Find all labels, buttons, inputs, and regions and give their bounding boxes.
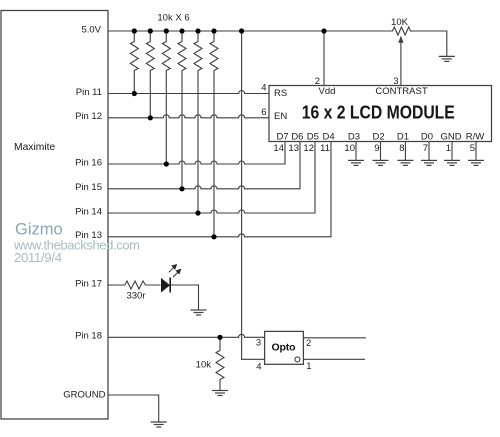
svg-text:Vdd: Vdd bbox=[319, 86, 336, 97]
svg-text:12: 12 bbox=[303, 143, 314, 154]
svg-text:Pin 11: Pin 11 bbox=[76, 87, 102, 98]
svg-text:5: 5 bbox=[470, 143, 475, 154]
svg-text:RS: RS bbox=[274, 88, 287, 99]
svg-text:4: 4 bbox=[256, 361, 261, 372]
svg-text:Gizmo: Gizmo bbox=[15, 221, 63, 239]
svg-text:5.0V: 5.0V bbox=[81, 25, 101, 36]
svg-text:10K: 10K bbox=[391, 17, 409, 28]
svg-text:10: 10 bbox=[344, 143, 355, 154]
svg-text:1: 1 bbox=[306, 361, 311, 372]
svg-text:D0: D0 bbox=[421, 131, 433, 142]
svg-text:D6: D6 bbox=[291, 131, 303, 142]
svg-text:16 x 2 LCD MODULE: 16 x 2 LCD MODULE bbox=[302, 101, 455, 122]
svg-text:Pin 15: Pin 15 bbox=[75, 182, 102, 193]
svg-text:330r: 330r bbox=[126, 290, 145, 301]
svg-text:11: 11 bbox=[320, 143, 330, 154]
svg-text:2: 2 bbox=[306, 338, 311, 349]
svg-text:8: 8 bbox=[399, 143, 404, 154]
svg-text:GND: GND bbox=[440, 131, 461, 142]
svg-text:Pin 12: Pin 12 bbox=[75, 111, 102, 122]
svg-text:Opto: Opto bbox=[272, 342, 296, 354]
svg-text:1: 1 bbox=[446, 143, 451, 154]
svg-text:D2: D2 bbox=[373, 131, 385, 142]
svg-text:EN: EN bbox=[274, 111, 287, 122]
svg-text:10k X 6: 10k X 6 bbox=[157, 13, 189, 24]
svg-text:GROUND: GROUND bbox=[63, 390, 105, 401]
svg-text:D1: D1 bbox=[397, 131, 409, 142]
svg-text:D7: D7 bbox=[277, 131, 289, 142]
svg-text:6: 6 bbox=[261, 107, 266, 118]
svg-text:9: 9 bbox=[374, 143, 379, 154]
svg-text:7: 7 bbox=[423, 143, 428, 154]
svg-text:10k: 10k bbox=[196, 360, 212, 371]
svg-text:Pin 14: Pin 14 bbox=[75, 206, 102, 217]
svg-text:Pin 17: Pin 17 bbox=[75, 278, 102, 289]
svg-text:4: 4 bbox=[261, 82, 266, 93]
svg-text:Maximite: Maximite bbox=[14, 142, 55, 153]
svg-text:D5: D5 bbox=[307, 131, 319, 142]
svg-text:D3: D3 bbox=[348, 131, 360, 142]
svg-text:Pin 18: Pin 18 bbox=[75, 331, 102, 342]
svg-text:R/W: R/W bbox=[466, 131, 485, 142]
svg-text:3: 3 bbox=[256, 338, 261, 349]
svg-text:14: 14 bbox=[273, 143, 284, 154]
svg-text:CONTRAST: CONTRAST bbox=[375, 86, 427, 97]
svg-text:13: 13 bbox=[288, 143, 299, 154]
svg-text:Pin 16: Pin 16 bbox=[75, 157, 102, 168]
svg-text:2011/9/4: 2011/9/4 bbox=[14, 250, 62, 265]
svg-text:D4: D4 bbox=[323, 131, 335, 142]
